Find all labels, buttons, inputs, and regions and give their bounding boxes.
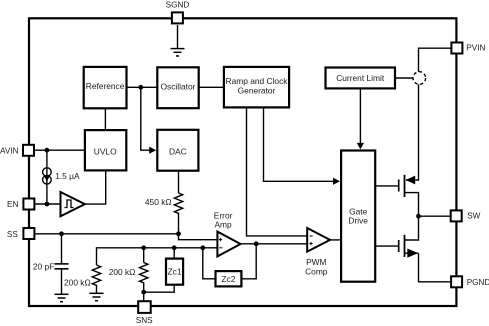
pin PGND bbox=[451, 276, 489, 287]
svg-text:Comp: Comp bbox=[305, 266, 328, 276]
resistor 450k bbox=[174, 193, 182, 234]
wire 20pF cap top bbox=[61, 234, 63, 264]
ground (200k a) bbox=[90, 293, 104, 300]
svg-text:200 kΩ: 200 kΩ bbox=[109, 267, 136, 277]
svg-text:PWM: PWM bbox=[306, 257, 326, 267]
wire DAC bottom to 450k bbox=[178, 171, 180, 193]
wire PVIN to FET drain bbox=[419, 48, 451, 71]
wire sense circle to high FET drain bbox=[406, 84, 419, 180]
pin SW bbox=[451, 210, 481, 221]
svg-text:SNS: SNS bbox=[136, 316, 153, 325]
wire to 200k b bbox=[143, 248, 145, 263]
current sense dashed circle bbox=[413, 72, 426, 85]
svg-text:SW: SW bbox=[467, 211, 480, 220]
node error amp output junction bbox=[254, 241, 259, 246]
wire feedback line bbox=[97, 248, 218, 265]
wire Reference to Oscillator bbox=[127, 86, 158, 88]
svg-text:20 pF: 20 pF bbox=[33, 261, 54, 271]
svg-text:DAC: DAC bbox=[169, 146, 187, 156]
svg-text:Zc1: Zc1 bbox=[168, 267, 182, 277]
pin AVIN bbox=[0, 145, 34, 156]
wire SW junction to SW pin bbox=[419, 215, 451, 217]
svg-text:1.5 µA: 1.5 µA bbox=[55, 171, 80, 181]
ground (20pF) bbox=[55, 294, 69, 301]
outer border bbox=[29, 18, 456, 306]
ground (SGND) bbox=[171, 49, 185, 56]
arrow into DAC bbox=[149, 147, 156, 154]
wire Current Limit to sense circle bbox=[395, 77, 413, 79]
svg-text:SGND: SGND bbox=[166, 1, 190, 10]
node 20pF junction bbox=[59, 231, 64, 236]
wire buffer output to UVLO bottom bbox=[85, 170, 106, 204]
block UVLO bbox=[85, 130, 126, 170]
pin SGND bbox=[166, 1, 190, 24]
pin SNS bbox=[136, 301, 153, 325]
node Reference-Oscillator junction bbox=[138, 85, 143, 90]
node AVIN junction bbox=[45, 148, 50, 153]
wire Zc1 bottom to SNS node bbox=[144, 285, 175, 292]
wire EN to buffer bbox=[35, 203, 61, 205]
wire step to error amp plus bbox=[179, 234, 218, 240]
svg-text:PVIN: PVIN bbox=[466, 44, 485, 53]
svg-text:Drive: Drive bbox=[348, 215, 368, 225]
wire Current Limit to Gate Drive bbox=[359, 88, 361, 143]
pin EN bbox=[7, 199, 34, 210]
wire error amp output bbox=[241, 243, 307, 245]
buffer with hysteresis bbox=[61, 192, 85, 216]
wire Zc2 left bbox=[203, 248, 215, 279]
wire AVIN to UVLO bbox=[35, 149, 85, 151]
block Gate Drive bbox=[341, 151, 375, 282]
svg-text:AVIN: AVIN bbox=[0, 146, 19, 155]
transistor Q1 (high side) bbox=[375, 175, 418, 216]
wire Reference bottom to UVLO top bbox=[104, 108, 106, 130]
wire Oscillator to Ramp generator bbox=[199, 86, 224, 88]
transistor Q2 (low side) bbox=[375, 216, 450, 282]
op-amp PWM Comp bbox=[305, 228, 330, 276]
wire PWM output to Gate Drive bbox=[330, 239, 341, 241]
block Oscillator bbox=[157, 67, 198, 108]
node Zc2 junction bbox=[200, 245, 205, 250]
arrow into Gate Drive left bbox=[333, 178, 340, 185]
wire AVIN junction down to EN line bbox=[46, 150, 48, 204]
svg-text:UVLO: UVLO bbox=[94, 146, 117, 156]
svg-text:450 kΩ: 450 kΩ bbox=[145, 197, 172, 207]
node SW junction bbox=[416, 214, 421, 219]
op-amp Error Amp bbox=[214, 210, 241, 256]
resistor 200k (a) bbox=[92, 265, 100, 293]
resistor 200k (b) bbox=[140, 263, 148, 292]
svg-text:PGND: PGND bbox=[467, 278, 489, 287]
svg-text:200 kΩ: 200 kΩ bbox=[64, 278, 91, 288]
wire Zc1 top bbox=[173, 248, 175, 258]
wire Ramp gen to PWM comp minus bbox=[247, 108, 307, 236]
svg-text:Generator: Generator bbox=[238, 86, 276, 96]
node Zc1 junction bbox=[172, 245, 177, 250]
node EN junction bbox=[45, 202, 50, 207]
svg-text:Amp: Amp bbox=[214, 219, 232, 229]
node 200k b junction bbox=[141, 245, 146, 250]
svg-text:Zc2: Zc2 bbox=[221, 274, 235, 284]
wire Ramp gen to Gate Drive bbox=[264, 108, 334, 181]
svg-text:Oscillator: Oscillator bbox=[161, 81, 196, 91]
wire SGND to ground bbox=[177, 25, 179, 48]
arrow into Gate Drive top bbox=[357, 143, 364, 150]
block Zc1 bbox=[166, 259, 183, 285]
svg-text:Current Limit: Current Limit bbox=[336, 73, 385, 83]
block Reference bbox=[84, 67, 127, 108]
current source 1.5 uA bbox=[43, 168, 52, 184]
block Zc2 bbox=[216, 271, 242, 286]
node SNS junction bbox=[141, 290, 146, 295]
pin SS bbox=[7, 228, 35, 239]
svg-text:SS: SS bbox=[7, 230, 18, 239]
current source arrow bbox=[44, 176, 50, 182]
pin PVIN bbox=[451, 43, 485, 54]
wire SNS junction to SNS pin bbox=[143, 292, 145, 300]
wire junction down to DAC bbox=[141, 87, 151, 150]
capacitor 20pF bbox=[55, 264, 69, 269]
wire 20pF cap bottom bbox=[61, 269, 63, 294]
svg-text:EN: EN bbox=[7, 200, 18, 209]
block Ramp and Clock Generator bbox=[224, 67, 289, 108]
block Current Limit bbox=[326, 68, 396, 89]
node 450k junction bbox=[176, 231, 181, 236]
wire SS line bbox=[35, 233, 179, 235]
block DAC bbox=[157, 130, 198, 171]
wire Zc2 right to error amp output bbox=[242, 244, 256, 279]
svg-text:Reference: Reference bbox=[86, 81, 125, 91]
